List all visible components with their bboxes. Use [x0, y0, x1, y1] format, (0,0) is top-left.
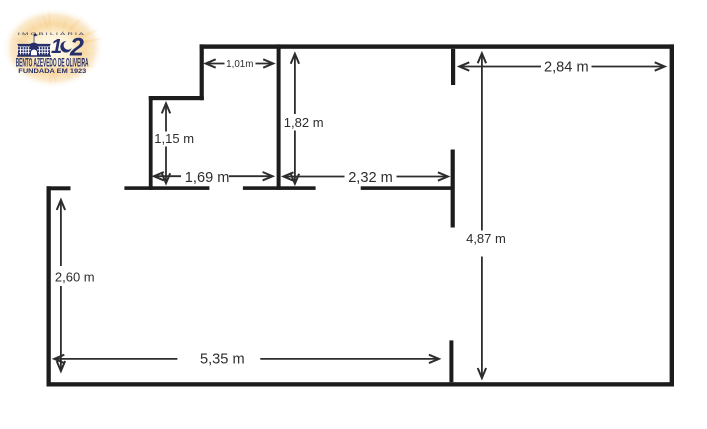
wall interior 1 [277, 44, 281, 190]
wall interior 2 middle [451, 150, 455, 228]
wall bottom [47, 382, 675, 386]
wall interior 2 lower [449, 340, 453, 382]
svg-text:2,32 m: 2,32 m [348, 170, 393, 186]
wall step upper vertical [200, 44, 204, 100]
svg-text:4,87 m: 4,87 m [466, 231, 506, 246]
svg-text:5,35 m: 5,35 m [200, 352, 245, 368]
wall right [670, 44, 674, 386]
svg-text:1,01m: 1,01m [226, 59, 253, 70]
wall left [47, 186, 51, 386]
dimension arrow 2,84 m [459, 62, 664, 70]
svg-text:2,84 m: 2,84 m [544, 60, 589, 76]
wall step lower vertical [149, 96, 153, 190]
wall segment B [243, 186, 316, 190]
svg-text:FUNDADA EM 1923: FUNDADA EM 1923 [18, 69, 87, 75]
dimension arrow 1,82 m [291, 54, 299, 184]
wall segment A [124, 186, 209, 190]
wall step horizontal [149, 96, 204, 100]
svg-text:1,69 m: 1,69 m [185, 170, 230, 186]
wall top [200, 44, 674, 48]
svg-text:1,82 m: 1,82 m [284, 115, 324, 130]
svg-text:1,15 m: 1,15 m [154, 131, 194, 146]
dimension arrow 5,35 m [54, 355, 439, 363]
logo numerals 102 [51, 33, 84, 61]
wall segment C [361, 186, 453, 190]
svg-text:BENTO AZEVEDO DE OLIVEIRA: BENTO AZEVEDO DE OLIVEIRA [16, 56, 89, 69]
dimension arrow 1,15 m [162, 103, 170, 183]
dimension arrow 4,87 m [478, 53, 486, 378]
logo sunburst [2, 8, 104, 88]
dimension arrow 2,60 m [57, 200, 65, 371]
svg-text:2,60 m: 2,60 m [55, 270, 95, 285]
wall interior 2 upper [451, 49, 455, 85]
dimension arrow 1,01m [206, 59, 274, 67]
dimension arrow 1,69 m [154, 172, 273, 180]
logo building [17, 34, 51, 56]
dimension arrow 2,32 m [284, 172, 448, 180]
wall stub top-left [47, 186, 71, 190]
